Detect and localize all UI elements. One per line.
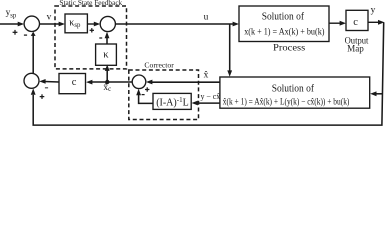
- signs drawn: [13, 28, 150, 99]
- svg-text:(I-A)-1L: (I-A)-1L: [156, 96, 189, 108]
- svg-text:Process: Process: [273, 43, 306, 53]
- svg-text:x̂(k + 1) = Ax̂(k) + L(y(k) −: x̂(k + 1) = Ax̂(k) + L(y(k) − cx̂(k)) + …: [223, 97, 350, 107]
- wire Process to c: [329, 22, 341, 24]
- summing junction S3: [132, 75, 146, 89]
- wire IAL to S3: [139, 94, 153, 104]
- sign S1 minus: [24, 34, 27, 36]
- sign S4 plus: [40, 96, 45, 98]
- block (I-A)^-1 L: [153, 93, 191, 109]
- arrow u down into Observer: [227, 70, 232, 76]
- wire kappa to S2: [106, 37, 108, 44]
- arrow into kappa bottom: [105, 65, 110, 71]
- arrow into S2 bottom from kappa: [105, 32, 110, 39]
- wire v: S1 to Ksp: [40, 23, 61, 25]
- arrow y output: [378, 20, 384, 25]
- block c output map: [346, 10, 368, 30]
- junction dot: [105, 80, 109, 84]
- svg-text:y: y: [371, 5, 376, 15]
- dashed box Static State Feedback: [55, 6, 127, 69]
- wire y-cx: observer to IAL box: [197, 102, 220, 104]
- sign S2 plus: [90, 29, 94, 31]
- wire u: S2 to Process: [115, 23, 234, 25]
- sign S3 plus: [145, 89, 149, 91]
- arrow into c estimator right: [86, 80, 92, 85]
- arrow into S1 bottom: [31, 32, 36, 36]
- wire xhat_c: S3 to c box: [92, 81, 132, 83]
- wire xhat: observer to S3: [151, 81, 220, 83]
- svg-text:u: u: [204, 12, 209, 22]
- block Observer: [220, 77, 370, 108]
- svg-text:Corrector: Corrector: [144, 60, 174, 69]
- svg-text:y − cx̂: y − cx̂: [201, 92, 221, 101]
- wire S4 up to S1: [32, 35, 34, 73]
- wire c to S4: [45, 81, 60, 84]
- arrow into S3 right: [146, 80, 152, 85]
- sign S3 minus: [142, 94, 145, 96]
- arrow into IAL right: [192, 101, 198, 106]
- arrow into S4 right: [39, 79, 45, 84]
- arrowheads: [18, 20, 385, 106]
- block kappa: [96, 44, 117, 65]
- sign S4 minus: [45, 87, 48, 89]
- arrow into S2: [94, 22, 100, 27]
- arrow into Observer right: [370, 91, 376, 96]
- wire branch up into kappa box: [106, 71, 108, 83]
- wire y branch into observer: [376, 93, 383, 95]
- wire u branch down to observer: [229, 24, 231, 72]
- summing junction S2: [100, 16, 115, 31]
- wire ysp input: [0, 23, 19, 25]
- arrow into Process: [233, 22, 239, 27]
- svg-text:c: c: [72, 77, 77, 88]
- summing junction S4: [24, 73, 39, 88]
- wire Ksp to S2: [87, 23, 95, 25]
- svg-text:Solution of: Solution of: [272, 84, 315, 95]
- wire y feedback: right edge down, bottom, up to S4: [33, 22, 384, 125]
- block Process: [239, 6, 329, 42]
- svg-text:x̂: x̂: [204, 69, 209, 80]
- block c estimator: [59, 74, 86, 94]
- arrow into c output map: [340, 21, 346, 26]
- svg-text:Map: Map: [347, 44, 364, 54]
- summing junction S1: [24, 16, 39, 31]
- arrow into Ksp: [59, 22, 65, 27]
- svg-text:c: c: [353, 17, 358, 28]
- svg-text:Static State Feedback: Static State Feedback: [59, 0, 122, 7]
- arrow into S4 bottom: [31, 88, 36, 94]
- sign S1 plus: [13, 31, 18, 33]
- svg-text:Solution of: Solution of: [262, 12, 305, 23]
- arrow into S3 bottom: [136, 89, 141, 95]
- sign S2 minus: [99, 37, 102, 39]
- dashed box Corrector: [129, 70, 199, 120]
- svg-text:v: v: [47, 13, 52, 23]
- svg-text:κ: κ: [103, 49, 109, 60]
- wire y: c to output corner: [368, 21, 379, 23]
- block Ksp: [65, 14, 87, 33]
- svg-text:x(k + 1) = Ax(k) + bu(k): x(k + 1) = Ax(k) + bu(k): [244, 27, 324, 38]
- arrow into S1: [18, 22, 24, 27]
